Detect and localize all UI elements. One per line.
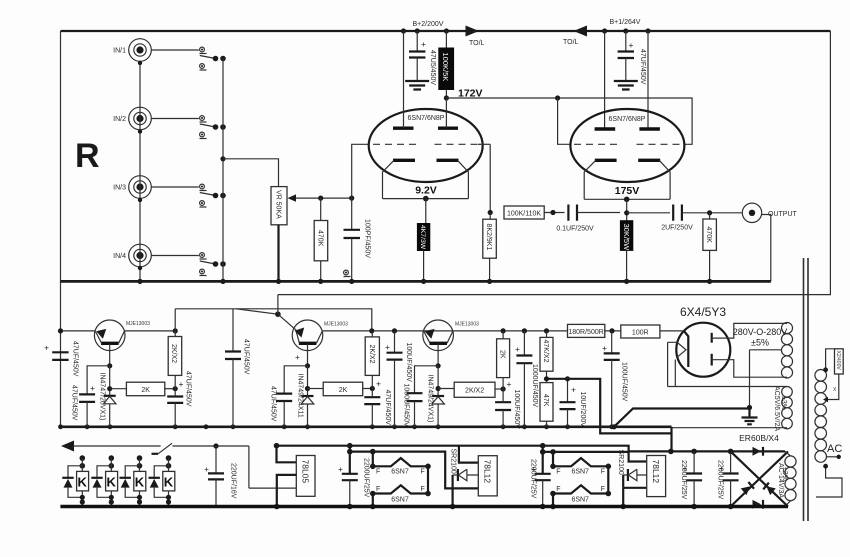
wire Q1 collector to riser [125, 330, 175, 332]
svg-text:IN/3: IN/3 [113, 185, 126, 192]
svg-text:K: K [107, 475, 117, 490]
wire grid V1b down to coupling node [489, 144, 491, 212]
resistor 2K/X2 Q1 [174, 309, 176, 337]
capacitor 1000UF/450V Q3 base [407, 393, 423, 401]
capacitor 100PF/450V [344, 230, 361, 238]
resistor 4K7/3W (black label) [425, 199, 427, 224]
svg-text:2K/X2: 2K/X2 [170, 344, 177, 363]
svg-text:100UF/450V: 100UF/450V [405, 343, 412, 383]
relay contact on ground rail [344, 270, 349, 275]
transformer core [804, 258, 809, 521]
svg-text:+: + [507, 379, 512, 389]
connector OUTPUT jack [742, 203, 761, 222]
svg-text:1000UF/450V: 1000UF/450V [403, 384, 410, 428]
resistor 100R [621, 325, 660, 338]
svg-text:F: F [421, 486, 425, 493]
wire cathode to output node [626, 199, 628, 220]
switch arm S3 [200, 193, 216, 196]
svg-text:SR2100: SR2100 [450, 449, 457, 474]
svg-text:R: R [75, 137, 100, 175]
svg-text:6SN7/6N8P: 6SN7/6N8P [408, 115, 445, 122]
relay K3 [120, 455, 146, 506]
svg-text:+: + [338, 464, 343, 474]
wire relay 5V line [73, 445, 161, 447]
resistor 470K output [709, 213, 711, 219]
ground center tap [742, 408, 758, 425]
svg-text:78L12: 78L12 [651, 460, 661, 484]
svg-text:100UF/450V: 100UF/450V [621, 362, 628, 402]
svg-text:47UF/450V: 47UF/450V [185, 371, 192, 407]
svg-text:F: F [376, 469, 380, 476]
resistor 2K/X2 Q3 [438, 388, 454, 390]
svg-text:F: F [421, 469, 425, 476]
regulator 78L05 [277, 446, 297, 463]
svg-text:47UF/450V: 47UF/450V [384, 390, 391, 426]
svg-text:47K: 47K [542, 394, 549, 407]
wire regulator ground rail E [61, 425, 672, 428]
svg-text:1000UF/450V: 1000UF/450V [531, 364, 538, 408]
capacitor 2200UF/25V no1 [349, 446, 351, 474]
wire IN/3 to switch [151, 186, 199, 188]
switch arm S1 [200, 56, 216, 59]
regulator 78L12 no1 [478, 456, 497, 496]
arrow TO/L right [466, 26, 480, 37]
svg-text:2K/X2: 2K/X2 [368, 345, 375, 364]
wire heater sub-bus 1 [350, 452, 479, 489]
potentiometer VR50KA [271, 187, 287, 225]
node junction dots top rail [401, 28, 406, 33]
relay contact S2a [200, 116, 205, 121]
svg-text:2200UF/25V: 2200UF/25V [716, 460, 723, 500]
svg-text:2K: 2K [141, 387, 150, 394]
resistor 100K/5K (black label) [445, 31, 447, 48]
svg-text:47UF/450V: 47UF/450V [71, 385, 78, 421]
wire right border B+ raw [278, 31, 831, 295]
wire bias to heater line [614, 409, 750, 427]
wire tube1 grid left drop [352, 144, 370, 229]
wire heater line 6.3V [668, 386, 782, 388]
svg-text:AC: AC [827, 443, 842, 455]
svg-text:+: + [90, 383, 95, 393]
svg-text:78L05: 78L05 [301, 460, 311, 484]
svg-text:6X4/5Y3: 6X4/5Y3 [680, 305, 726, 319]
relay K1 [62, 455, 88, 506]
pin cathode V1b [437, 159, 459, 162]
svg-text:AC5V/6.5V/2A: AC5V/6.5V/2A [773, 386, 780, 431]
pin plate V2a [595, 127, 616, 130]
svg-text:+: + [295, 352, 300, 362]
pin plate 6X4 upper [711, 333, 713, 343]
svg-text:220UF/16V: 220UF/16V [230, 463, 237, 499]
op-amp tube V2 6SN7/6N8P envelope [570, 109, 684, 182]
svg-text:+: + [44, 343, 49, 353]
resistor 2K Q1 [110, 388, 127, 390]
svg-text:6SN7: 6SN7 [571, 497, 589, 504]
connector IN/4 RCA jack [129, 244, 152, 267]
regulator 78L12 no2 [647, 456, 666, 497]
capacitor X2 mains [823, 367, 828, 372]
svg-text:2200UF/25V: 2200UF/25V [680, 460, 687, 500]
svg-text:F: F [601, 469, 605, 476]
svg-text:SR2100: SR2100 [617, 450, 624, 475]
relay contact S2b [200, 132, 205, 137]
wire IN/4 to switch [151, 255, 199, 257]
svg-text:MJE13003: MJE13003 [455, 322, 479, 328]
wire raw DC drop to bottom band [670, 427, 672, 452]
wire heater supply main line [277, 446, 786, 452]
svg-text:175V: 175V [615, 185, 640, 197]
pin cathode V2a [595, 159, 617, 162]
wire B+ top rail [61, 30, 831, 32]
pin grid V1 dashed [373, 143, 416, 145]
svg-text:IN4749/24VX1): IN4749/24VX1) [427, 375, 434, 423]
capacitor 2200UF/25V no3 [693, 451, 695, 473]
svg-text:TO/L: TO/L [469, 40, 485, 47]
ground symbol at B+1 cap [614, 81, 638, 90]
svg-text:IN/1: IN/1 [113, 48, 126, 55]
svg-text:MJE13003: MJE13003 [324, 322, 348, 328]
svg-text:X2/400V: X2/400V [835, 351, 841, 371]
node Q1 base node [107, 363, 112, 368]
capacitor 2200UF/25V no4 [730, 451, 732, 473]
svg-text:47U5/450V: 47U5/450V [429, 50, 436, 85]
wire branch to Q2 base [236, 309, 278, 314]
svg-text:2200UF/25V: 2200UF/25V [530, 459, 537, 499]
resistor 180R/500R [568, 324, 605, 337]
pin plate V1b [438, 126, 458, 129]
wire relay ground rail [60, 505, 788, 508]
node rail E dots [58, 424, 63, 429]
svg-text:+: + [515, 344, 520, 354]
svg-text:470K: 470K [705, 227, 712, 244]
svg-text:+: + [385, 342, 390, 352]
svg-text:9.2V: 9.2V [415, 185, 437, 197]
svg-text:470K: 470K [316, 230, 323, 247]
wire bias tap [547, 379, 672, 434]
svg-text:±5%: ±5% [751, 338, 769, 348]
resistor 2K/X2 Q2 [371, 331, 373, 337]
svg-text:2UF/250V: 2UF/250V [661, 225, 693, 232]
switch power [152, 453, 159, 455]
svg-text:8K2/9K1: 8K2/9K1 [485, 224, 492, 251]
svg-text:10UF/200V: 10UF/200V [579, 392, 586, 428]
wire 172V line to tube2 grids [446, 98, 692, 144]
svg-text:47UF/450V: 47UF/450V [243, 339, 250, 375]
svg-text:VR 50KA: VR 50KA [275, 190, 282, 219]
resistor 30K/5W (black label) [620, 221, 632, 251]
arrow relay supply [61, 441, 74, 452]
wire HV center tap [750, 350, 782, 408]
wire primary tap [826, 456, 839, 458]
svg-text:IN4747/20VX1): IN4747/20VX1) [99, 373, 106, 421]
capacitor 0.1UF/250V [568, 205, 577, 221]
svg-text:100K/110K: 100K/110K [507, 211, 541, 218]
pin plate V1a [393, 126, 414, 129]
relay K4 [149, 455, 175, 506]
transformer primary winding AC mains [815, 370, 827, 382]
svg-text:MJE13003: MJE13003 [126, 321, 150, 327]
svg-text:280V-O-280V: 280V-O-280V [733, 327, 788, 337]
pin heater 6X4 [677, 343, 686, 358]
resistor 100K/110K [504, 206, 544, 219]
transistor Q3 MJE13003 [423, 320, 454, 351]
svg-text:IN4749/24X11: IN4749/24X11 [297, 374, 304, 418]
transformer winding AC5V/6.5V/2A [782, 387, 788, 428]
capacitor 47UF/450V at B+2 [416, 31, 418, 51]
capacitor 2UF/250V [627, 212, 670, 214]
pin plate 6X4 lower [711, 354, 713, 366]
svg-text:180R/500R: 180R/500R [568, 329, 603, 336]
resistor 470K grid leak [320, 198, 322, 220]
svg-text:B+2/200V: B+2/200V [413, 21, 444, 28]
node Q2 divider node [307, 366, 309, 396]
relay contact S4a [200, 253, 205, 258]
wire tube2 plate feeds [604, 31, 606, 128]
resistor 2K Q3 [502, 331, 504, 339]
switch arm S2 [200, 124, 216, 127]
svg-text:F: F [601, 486, 605, 493]
relay contact S3b [200, 201, 205, 206]
svg-text:2K: 2K [499, 350, 506, 359]
svg-text:6SN7: 6SN7 [391, 497, 409, 504]
svg-text:47K/X2: 47K/X2 [542, 340, 549, 363]
wire IN/2 to switch [151, 118, 199, 120]
op-amp tube V1 6SN7/6N8P envelope [369, 109, 483, 182]
node Q3 base node [436, 363, 441, 368]
svg-text:TO/L: TO/L [563, 39, 579, 46]
svg-text:47UF/450V: 47UF/450V [270, 386, 277, 422]
svg-text:+: + [376, 379, 381, 389]
svg-text:F: F [556, 469, 560, 476]
svg-text:100R: 100R [632, 330, 649, 337]
svg-text:78L12: 78L12 [483, 460, 493, 484]
svg-text:6SN7/6N8P: 6SN7/6N8P [609, 116, 646, 123]
pin cathode 6X4 [684, 331, 688, 367]
wire Q2 collector to wire D [323, 330, 660, 332]
capacitor 220UF/16V [213, 443, 218, 448]
diode zener IN4749/24X11 [302, 395, 314, 397]
capacitor 47UF/450V on line C [232, 309, 234, 352]
diode zener IN4749/24VX1 [432, 395, 444, 397]
heater pair 6SN7 no2 [552, 452, 554, 466]
wire 78L05 output [249, 446, 296, 488]
svg-text:ER60B/X4: ER60B/X4 [739, 433, 779, 443]
wiper arrow VR50KA [288, 194, 297, 201]
svg-text:IN/4: IN/4 [113, 253, 126, 260]
wire cathode U 9.2V [383, 198, 469, 200]
tube rectifier 6X4/5Y3 [676, 323, 730, 377]
node Q1 divider node [109, 366, 111, 396]
svg-text:F: F [556, 486, 560, 493]
svg-text:30K/5W: 30K/5W [622, 224, 631, 252]
svg-text:100UF/450V: 100UF/450V [513, 390, 520, 430]
wire left border B+ feed [60, 31, 62, 427]
wire selector bus [222, 59, 224, 282]
wire heater sub-bus 2 [543, 451, 629, 453]
switch arm S4 [200, 261, 216, 264]
connector IN/2 RCA jack [129, 107, 152, 130]
wire preamp ground rail [61, 280, 771, 283]
svg-text:100K/5K: 100K/5K [441, 53, 450, 82]
pin grid V2 dashed [574, 143, 618, 145]
transistor Q2 MJE13003 [292, 320, 323, 351]
wire LV winding bottom to rail [672, 427, 782, 429]
relay contact S1b [200, 64, 205, 69]
diode zener 1N4747/20VX1 [104, 395, 116, 397]
svg-text:+: + [571, 385, 576, 395]
svg-text:47UF/450V: 47UF/450V [72, 341, 79, 377]
resistor 47K divider [540, 383, 553, 422]
wire output jack ground [762, 215, 771, 282]
svg-text:B+1/264V: B+1/264V [610, 19, 641, 26]
svg-text:OUTPUT: OUTPUT [768, 211, 798, 218]
relay contact S3a [200, 184, 205, 189]
svg-text:±3%: ±3% [780, 396, 787, 410]
svg-text:100PF/450V: 100PF/450V [364, 219, 371, 258]
wire cathode U 175V [584, 198, 670, 200]
ground symbol at B+2 cap [405, 81, 429, 90]
wire bus to volume pot [223, 159, 279, 187]
svg-text:4K7/3W: 4K7/3W [419, 225, 426, 250]
capacitor 47UF/450V at B+1 [625, 31, 627, 51]
arrow TO/L left [574, 26, 588, 37]
pin cathode V2b [638, 159, 660, 162]
relay contact S4b [200, 269, 205, 274]
resistor 2K Q2 [308, 388, 324, 390]
svg-text:6SN7: 6SN7 [391, 469, 409, 476]
svg-text:2K/X2: 2K/X2 [465, 388, 484, 395]
node Q2 base node [305, 363, 310, 368]
node 172V [444, 95, 449, 100]
svg-text:IN/2: IN/2 [113, 116, 126, 123]
heater pair 6SN7 no1 [372, 452, 374, 467]
pin plate V2b [639, 127, 660, 130]
transistor Q1 MJE13003 [94, 320, 125, 351]
relay contact S1a [200, 47, 205, 52]
transformer winding AC-14V/3A [785, 451, 791, 506]
svg-text:K: K [164, 475, 174, 490]
svg-text:+: + [179, 379, 184, 389]
node Q3 divider node [437, 366, 439, 396]
svg-text:47UF/450V: 47UF/450V [639, 49, 646, 85]
wire primary bottom hook [816, 466, 842, 497]
svg-text:K: K [135, 475, 145, 490]
wire IN/1 to switch [151, 49, 199, 51]
svg-text:F: F [376, 486, 380, 493]
svg-text:+: + [421, 39, 426, 49]
wire line C stage1 to stage3 [175, 309, 372, 331]
transformer winding 280V-0-280V [782, 323, 788, 377]
svg-text:K: K [78, 475, 88, 490]
capacitor 2200UF/25V no2 [542, 446, 544, 474]
svg-text:+: + [602, 343, 607, 353]
resistor 8K2/9K1 [489, 213, 491, 220]
connector IN/1 RCA jack [129, 39, 152, 62]
svg-text:2K: 2K [339, 387, 348, 394]
connector IN/3 RCA jack [129, 176, 152, 199]
wire input ground chain [139, 61, 141, 281]
svg-text:+: + [629, 40, 634, 50]
svg-text:±3%: ±3% [781, 467, 788, 481]
relay K2 [91, 455, 117, 506]
svg-text:2200UF/25V: 2200UF/25V [363, 458, 370, 498]
svg-text:0.1UF/250V: 0.1UF/250V [556, 226, 594, 233]
svg-text:6SN7: 6SN7 [571, 469, 589, 476]
pin cathode V1a [393, 159, 415, 162]
resistor 47K/X2 divider [546, 331, 548, 338]
